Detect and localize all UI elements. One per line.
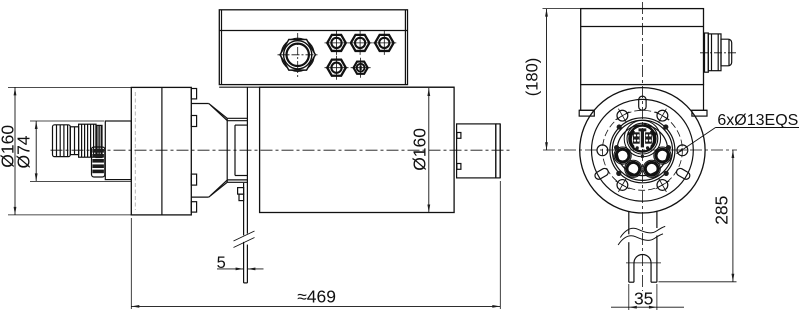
fork break wave top xyxy=(620,226,665,237)
housing box front xyxy=(579,9,707,111)
svg-text:5: 5 xyxy=(217,254,226,272)
plug neck xyxy=(70,127,78,155)
socket bottom-left xyxy=(625,160,642,177)
flange hidden line xyxy=(134,92,136,210)
flange plate D160 xyxy=(131,87,191,214)
svg-text:Ø160: Ø160 xyxy=(410,128,430,171)
bolt hole bottom-right xyxy=(655,178,669,192)
socket left xyxy=(614,147,631,164)
svg-text:≈469: ≈469 xyxy=(297,287,336,307)
dim D160 right: dimension line xyxy=(427,88,430,213)
bolt hole right xyxy=(677,145,688,156)
hub xyxy=(191,104,208,198)
dim (180): extension line top xyxy=(543,8,581,10)
torque arm rod xyxy=(244,183,248,283)
stator bracket plate xyxy=(246,87,248,233)
cable gland small 1 xyxy=(325,31,349,55)
dim 5: dimension lines xyxy=(217,268,264,271)
socket bottom-right xyxy=(643,160,660,177)
elbow cable boot (dark, ribbed) xyxy=(92,147,105,177)
shaft cylinder D74 xyxy=(105,121,131,180)
dim 35: extension lines xyxy=(629,284,657,310)
flange tab 3 xyxy=(191,174,196,185)
box wall line left xyxy=(221,10,223,85)
bolt hole bottom-left xyxy=(615,178,629,192)
cable gland small 4 xyxy=(325,56,349,80)
gland side view on box xyxy=(700,33,737,72)
cone taper xyxy=(209,104,228,198)
buffer foot right xyxy=(692,110,707,116)
plug collar (dark nut) xyxy=(96,125,102,157)
svg-text:6xØ13EQS: 6xØ13EQS xyxy=(717,112,798,129)
screw dots xyxy=(614,124,671,176)
bolt hole top-left xyxy=(615,109,629,123)
buffer foot left xyxy=(579,110,594,116)
flange tab 4 xyxy=(191,202,196,212)
fork slot xyxy=(629,254,657,282)
dim D74: extension lines xyxy=(30,121,131,181)
socket right xyxy=(654,147,671,164)
electronics box (side view) xyxy=(219,10,407,85)
dim 285: extension line bottom xyxy=(659,281,737,283)
flange inner line xyxy=(161,87,163,214)
connector plug cap xyxy=(53,125,71,157)
slot lug 210deg xyxy=(594,167,610,181)
vertical centerline right view xyxy=(642,2,644,291)
plug ribbed body xyxy=(79,124,96,157)
clamp screw xyxy=(238,188,244,201)
svg-text:(180): (180) xyxy=(524,58,542,97)
inner ring xyxy=(592,99,694,201)
rod break lines xyxy=(234,231,255,248)
cable gland large (hex) xyxy=(278,33,319,77)
dim 285: dimension line xyxy=(732,150,735,282)
flange tab 1 xyxy=(191,89,196,99)
bolt circle dashed xyxy=(602,110,682,190)
dim 469: extension lines xyxy=(131,181,500,309)
flange tab 2 xyxy=(191,116,196,127)
box base lip line xyxy=(219,86,454,88)
blanking plug small 5 xyxy=(351,58,371,78)
horizontal centerline right view xyxy=(543,149,737,151)
box lid line xyxy=(219,30,407,32)
fork break wave bottom xyxy=(618,234,663,245)
dim 35: dimension line xyxy=(611,306,684,309)
bolt hole top-right xyxy=(655,109,669,123)
output shaft stub xyxy=(457,124,501,178)
flange outer circle xyxy=(580,88,705,213)
fork pin center tick xyxy=(626,262,661,264)
central connector front xyxy=(624,120,660,158)
svg-text:Ø74: Ø74 xyxy=(14,135,34,168)
dim D74: dimension line xyxy=(35,121,38,181)
fork bar right line xyxy=(656,211,658,282)
fork bar left line xyxy=(628,212,630,283)
dim (180): dimension line xyxy=(545,9,548,151)
svg-text:285: 285 xyxy=(712,196,732,225)
slot lug 330deg xyxy=(675,167,691,181)
bolt hole left xyxy=(597,145,608,156)
plate rings xyxy=(610,118,675,183)
dim D160 left: dimension line xyxy=(14,87,17,214)
centerline left view xyxy=(51,149,512,151)
label 6xD13EQS leader xyxy=(677,128,800,154)
dim D160 left: extension lines xyxy=(8,87,131,214)
dim 469: dimension line xyxy=(131,305,500,308)
svg-text:35: 35 xyxy=(634,288,653,308)
slot lug top xyxy=(639,96,646,110)
box wall line right xyxy=(404,10,406,85)
cable gland small 3 xyxy=(372,31,396,55)
cable gland small 2 xyxy=(348,31,372,55)
neck rings xyxy=(227,118,248,182)
main cylinder body D160 xyxy=(260,87,455,212)
